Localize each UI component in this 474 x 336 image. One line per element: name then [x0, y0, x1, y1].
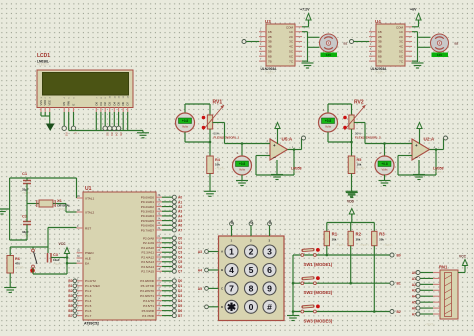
svg-text:P0.3/AD3: P0.3/AD3 — [141, 210, 155, 214]
svg-text:VSS: VSS — [39, 100, 43, 106]
svg-text:C1: C1 — [178, 241, 182, 245]
svg-text:−: − — [415, 155, 418, 160]
svg-text:P2.6/A14: P2.6/A14 — [141, 265, 154, 269]
svg-text:D1: D1 — [178, 284, 182, 288]
svg-text:C7: C7 — [178, 270, 182, 274]
svg-text:LM358: LM358 — [291, 167, 302, 171]
svg-text:+: + — [379, 152, 381, 156]
svg-text:X1: X1 — [57, 198, 63, 203]
svg-text:A3: A3 — [198, 250, 202, 254]
svg-text:C0: C0 — [230, 220, 234, 224]
svg-text:<TEXT>: <TEXT> — [360, 243, 370, 247]
svg-text:P2.4/A12: P2.4/A12 — [141, 255, 154, 259]
svg-text:SW3 (MODE3): SW3 (MODE3) — [304, 319, 333, 324]
svg-text:U3: U3 — [265, 19, 271, 24]
svg-text:10k: 10k — [332, 237, 337, 241]
svg-text:<TEXT>: <TEXT> — [37, 63, 49, 67]
svg-text:E: E — [72, 104, 76, 106]
svg-text:<TEXT>: <TEXT> — [53, 262, 63, 266]
svg-text:A6: A6 — [178, 224, 182, 228]
svg-text:U1: U1 — [85, 186, 92, 192]
svg-text:3B: 3B — [268, 40, 272, 44]
svg-text:A5: A5 — [412, 301, 416, 305]
svg-text:P3.1/TXD: P3.1/TXD — [141, 284, 155, 288]
svg-text:D4: D4 — [178, 299, 182, 303]
svg-text:U2:A: U2:A — [424, 137, 435, 142]
svg-text:Volts: Volts — [325, 125, 332, 129]
svg-text:+: + — [323, 109, 325, 113]
svg-text:<TEXT>: <TEXT> — [357, 167, 367, 171]
svg-text:<TEXT>: <TEXT> — [291, 170, 301, 174]
svg-text:D3: D3 — [108, 102, 112, 106]
svg-text:B0: B0 — [68, 279, 72, 283]
svg-text:VCC: VCC — [59, 242, 67, 246]
svg-text:P1.0/T2: P1.0/T2 — [85, 279, 96, 283]
svg-text:A3: A3 — [412, 289, 416, 293]
svg-text:4: 4 — [229, 265, 234, 275]
svg-text:10uF: 10uF — [53, 258, 60, 262]
svg-text:A1: A1 — [178, 200, 182, 204]
svg-text:P0.1/AD1: P0.1/AD1 — [141, 200, 155, 204]
svg-text:+: + — [415, 143, 418, 148]
svg-text:U5:A: U5:A — [282, 137, 293, 142]
svg-text:D2: D2 — [105, 133, 109, 137]
svg-text:C1: C1 — [249, 220, 253, 224]
svg-text:P1.3: P1.3 — [85, 294, 92, 298]
svg-text:Volts: Volts — [239, 168, 246, 172]
svg-text:5B: 5B — [378, 50, 382, 54]
svg-text:B3: B3 — [68, 294, 72, 298]
svg-text:A5: A5 — [178, 219, 182, 223]
svg-text:P3.2/INT0: P3.2/INT0 — [140, 289, 154, 293]
svg-text:D0: D0 — [94, 102, 98, 106]
svg-text:<TEXT>: <TEXT> — [57, 207, 67, 211]
svg-text:P0.0/AD0: P0.0/AD0 — [141, 196, 155, 200]
svg-text:10k: 10k — [357, 163, 362, 167]
svg-text:C2: C2 — [178, 246, 182, 250]
svg-text:+0.8: +0.8 — [325, 119, 332, 123]
svg-text:SW2 (MODE2): SW2 (MODE2) — [304, 290, 333, 295]
svg-text:+: + — [273, 143, 276, 148]
svg-text:P2.3/A11: P2.3/A11 — [142, 251, 155, 255]
svg-text:D4: D4 — [112, 102, 116, 106]
svg-text:A0: A0 — [412, 271, 416, 275]
svg-text:RS: RS — [64, 133, 68, 137]
svg-text:+6V: +6V — [410, 8, 417, 12]
svg-text:R3: R3 — [379, 232, 385, 237]
svg-text:SW1 (MODE1): SW1 (MODE1) — [304, 262, 333, 267]
svg-text:A2: A2 — [178, 205, 182, 209]
svg-text:12V: 12V — [437, 53, 442, 57]
svg-text:6B: 6B — [268, 54, 272, 58]
svg-text:P3.4/T0: P3.4/T0 — [143, 299, 154, 303]
svg-text:P2.0/A8: P2.0/A8 — [143, 236, 154, 240]
svg-text:P1.1/T2EX: P1.1/T2EX — [85, 284, 100, 288]
svg-text:+0.8: +0.8 — [239, 162, 246, 166]
svg-text:VEE: VEE — [48, 100, 52, 106]
svg-text:<TEXT>: <TEXT> — [336, 243, 346, 247]
svg-text:B1: B1 — [68, 284, 72, 288]
svg-text:A1: A1 — [412, 277, 416, 281]
svg-text:RV2: RV2 — [354, 100, 364, 106]
svg-text:4B: 4B — [268, 45, 272, 49]
svg-text:C3: C3 — [178, 251, 182, 255]
svg-text:P3.7/RD: P3.7/RD — [142, 314, 154, 318]
svg-text:−: − — [273, 155, 276, 160]
svg-text:ULN2003A: ULN2003A — [371, 67, 388, 71]
svg-text:D5: D5 — [178, 304, 182, 308]
svg-text:B6: B6 — [68, 309, 72, 313]
svg-text:1B: 1B — [378, 30, 382, 34]
svg-text:1B: 1B — [268, 30, 272, 34]
svg-text:+: + — [237, 152, 239, 156]
svg-text:FLEX(SENSOR)_1: FLEX(SENSOR)_1 — [214, 136, 240, 140]
svg-text:PSEN: PSEN — [85, 251, 93, 255]
svg-text:+: + — [180, 109, 182, 113]
svg-text:P3.0/RXD: P3.0/RXD — [140, 279, 155, 283]
svg-text:VDD: VDD — [43, 100, 47, 106]
svg-text:D4: D4 — [115, 133, 119, 137]
svg-text:A2: A2 — [412, 283, 416, 287]
svg-text:P1.7: P1.7 — [85, 314, 92, 318]
svg-text:P0.5/AD5: P0.5/AD5 — [141, 219, 155, 223]
svg-text:2B: 2B — [378, 35, 382, 39]
svg-text:B2: B2 — [397, 310, 401, 314]
svg-text:E: E — [74, 133, 78, 135]
svg-text:0: 0 — [249, 302, 254, 312]
svg-text:Volts: Volts — [381, 168, 388, 172]
svg-text:XTAL2: XTAL2 — [85, 210, 95, 214]
svg-text:A5: A5 — [198, 287, 202, 291]
svg-text:ALE: ALE — [85, 256, 91, 260]
svg-text:R1: R1 — [332, 232, 338, 237]
svg-text:#: # — [267, 302, 272, 312]
svg-text:1: 1 — [229, 247, 234, 257]
svg-text:R6: R6 — [15, 257, 20, 261]
svg-text:R5: R5 — [357, 158, 362, 162]
svg-text:D2: D2 — [178, 289, 182, 293]
svg-text:CRYSTAL: CRYSTAL — [57, 204, 71, 208]
svg-text:10k: 10k — [215, 163, 220, 167]
svg-text:D6: D6 — [178, 309, 182, 313]
svg-text:6B: 6B — [378, 54, 382, 58]
svg-text:7B: 7B — [378, 59, 382, 63]
svg-text:VDD: VDD — [347, 200, 355, 204]
svg-text:3B: 3B — [378, 40, 382, 44]
svg-text:RN1: RN1 — [439, 265, 448, 270]
svg-text:A6: A6 — [412, 306, 416, 310]
svg-text:RW: RW — [67, 101, 71, 106]
svg-text:D5: D5 — [119, 133, 123, 137]
svg-text:<TEXT>: <TEXT> — [383, 243, 393, 247]
svg-text:C2: C2 — [268, 220, 272, 224]
svg-text:6: 6 — [267, 265, 272, 275]
svg-text:3: 3 — [267, 247, 272, 257]
svg-text:C5: C5 — [178, 260, 182, 264]
svg-text:D0: D0 — [178, 279, 182, 283]
svg-text:9: 9 — [267, 284, 272, 294]
svg-text:A4: A4 — [198, 268, 202, 272]
svg-text:B2: B2 — [455, 42, 459, 46]
svg-text:D7: D7 — [178, 314, 182, 318]
svg-text:A0: A0 — [178, 196, 182, 200]
svg-text:470: 470 — [15, 262, 20, 266]
svg-text:A3: A3 — [178, 210, 182, 214]
svg-text:B0: B0 — [397, 253, 401, 257]
svg-text:P0.2/AD2: P0.2/AD2 — [141, 205, 155, 209]
svg-text:D5: D5 — [117, 102, 121, 106]
svg-text:LM358: LM358 — [433, 167, 444, 171]
svg-text:D7: D7 — [126, 102, 130, 106]
svg-text:D3: D3 — [110, 133, 114, 137]
svg-text:D3: D3 — [178, 294, 182, 298]
svg-text:C4: C4 — [178, 255, 182, 259]
svg-text:D1: D1 — [99, 102, 103, 106]
svg-text:<TEXT>: <TEXT> — [425, 323, 435, 327]
svg-text:A7: A7 — [412, 312, 416, 316]
svg-text:10k: 10k — [356, 237, 361, 241]
svg-text:8: 8 — [249, 284, 254, 294]
svg-text:P3.6/WR: P3.6/WR — [142, 309, 155, 313]
svg-text:<TEXT>: <TEXT> — [15, 266, 25, 270]
svg-text:C0: C0 — [178, 236, 182, 240]
svg-text:B1: B1 — [344, 42, 348, 46]
svg-text:C1: C1 — [22, 171, 28, 176]
svg-text:+0.8: +0.8 — [182, 119, 189, 123]
svg-text:U4: U4 — [375, 19, 381, 24]
svg-text:+7.2V: +7.2V — [300, 8, 310, 12]
svg-text:A4: A4 — [412, 295, 416, 299]
svg-text:RS: RS — [62, 102, 66, 106]
svg-text:XTAL1: XTAL1 — [85, 196, 95, 200]
svg-text:VCC: VCC — [459, 255, 467, 259]
svg-text:R2: R2 — [356, 232, 362, 237]
svg-text:P3.3/INT1: P3.3/INT1 — [140, 294, 154, 298]
svg-text:P2.7/A15: P2.7/A15 — [141, 270, 154, 274]
svg-text:<TEXT>: <TEXT> — [265, 71, 275, 75]
svg-text:B4: B4 — [68, 299, 72, 303]
svg-text:P1.2: P1.2 — [85, 289, 92, 293]
svg-text:P3.5/T1: P3.5/T1 — [143, 304, 154, 308]
svg-text:B5: B5 — [68, 304, 72, 308]
svg-text:<TEXT>: <TEXT> — [215, 167, 225, 171]
svg-text:2B: 2B — [268, 35, 272, 39]
svg-text:<TEXT>: <TEXT> — [375, 71, 385, 75]
svg-text:FLEX(SENSOR)_2: FLEX(SENSOR)_2 — [355, 136, 381, 140]
svg-text:P2.1/A9: P2.1/A9 — [143, 241, 154, 245]
svg-text:<TEXT>: <TEXT> — [433, 170, 443, 174]
svg-text:LCD1: LCD1 — [37, 53, 50, 59]
svg-text:C3: C3 — [53, 253, 58, 257]
svg-text:P0.6/AD6: P0.6/AD6 — [141, 224, 155, 228]
svg-text:Volts: Volts — [182, 125, 189, 129]
svg-text:2: 2 — [249, 247, 254, 257]
svg-text:P1.5: P1.5 — [85, 304, 92, 308]
svg-text:ULN2003A: ULN2003A — [261, 67, 278, 71]
svg-text:P1.6: P1.6 — [85, 309, 92, 313]
svg-text:AT89C52: AT89C52 — [84, 322, 99, 326]
svg-text:P1.4: P1.4 — [85, 299, 92, 303]
svg-text:7: 7 — [229, 284, 234, 294]
svg-text:P2.2/A10: P2.2/A10 — [141, 246, 154, 250]
svg-text:A7: A7 — [178, 228, 182, 232]
svg-text:COM: COM — [396, 25, 404, 29]
svg-text:B7: B7 — [68, 314, 72, 318]
svg-text:C6: C6 — [178, 265, 182, 269]
svg-text:5B: 5B — [268, 50, 272, 54]
svg-text:12V: 12V — [326, 53, 331, 57]
svg-text:P2.5/A13: P2.5/A13 — [141, 260, 154, 264]
svg-text:COM: COM — [286, 25, 294, 29]
svg-text:B2: B2 — [68, 289, 72, 293]
svg-text:7B: 7B — [268, 59, 272, 63]
svg-text:B1: B1 — [397, 282, 401, 286]
svg-text:RV1: RV1 — [213, 100, 223, 106]
svg-text:A4: A4 — [178, 214, 182, 218]
svg-text:D2: D2 — [103, 102, 107, 106]
svg-text:D6: D6 — [121, 102, 125, 106]
svg-text:33pF: 33pF — [22, 188, 29, 192]
svg-text:+0.8: +0.8 — [381, 162, 388, 166]
svg-text:P0.4/AD4: P0.4/AD4 — [141, 214, 155, 218]
svg-text:4B: 4B — [378, 45, 382, 49]
svg-text:RST: RST — [85, 226, 91, 230]
svg-text:10k: 10k — [379, 237, 384, 241]
svg-text:33pF: 33pF — [22, 230, 29, 234]
svg-text:5: 5 — [249, 265, 254, 275]
svg-text:P0.7/AD7: P0.7/AD7 — [141, 228, 155, 232]
